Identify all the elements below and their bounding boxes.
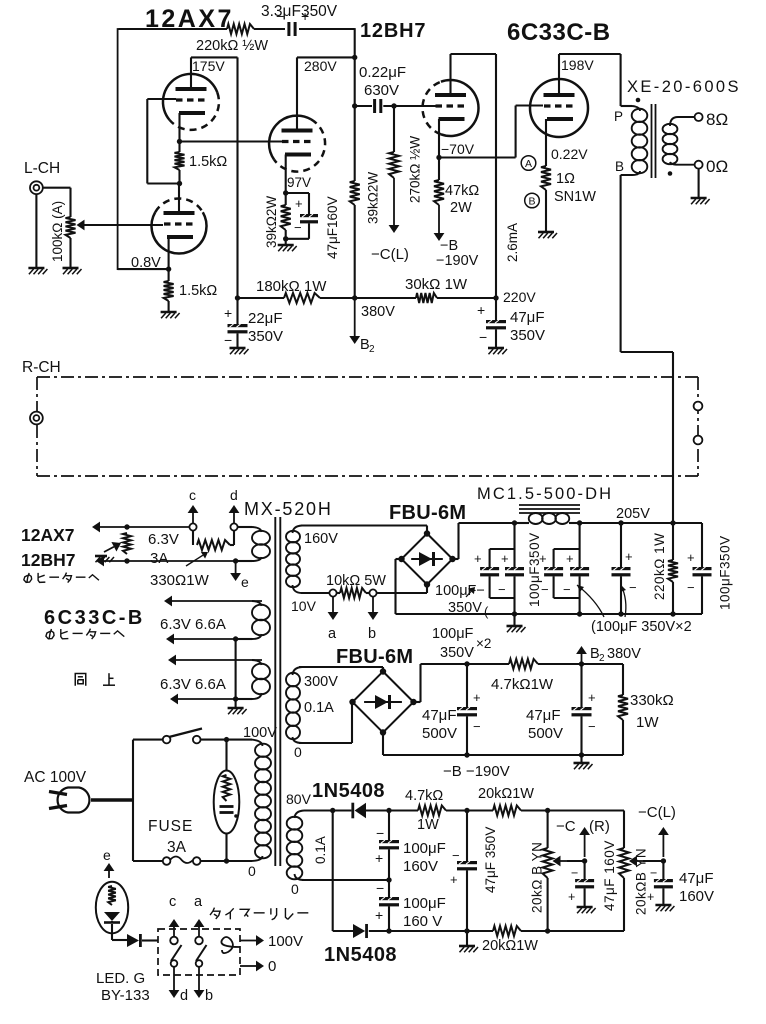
svg-text:−: − xyxy=(276,8,284,24)
svg-text:A: A xyxy=(525,158,532,170)
svg-text:b: b xyxy=(205,988,213,1004)
resistor 39k 2W rail xyxy=(350,181,360,205)
ground mid xyxy=(466,931,468,945)
capacitor 47uF 500V b2 xyxy=(580,664,582,707)
wire xyxy=(383,105,436,107)
svg-text:BY-133: BY-133 xyxy=(101,987,150,1004)
wire xyxy=(320,297,416,299)
svg-text:100μF350V: 100μF350V xyxy=(527,532,542,607)
wire B lead down xyxy=(620,175,622,352)
svg-text:10kΩ 5W: 10kΩ 5W xyxy=(326,573,386,589)
connector c xyxy=(189,523,196,530)
label timer relay xyxy=(210,908,214,915)
node xyxy=(235,295,240,300)
wire pot ground xyxy=(69,238,71,268)
wire xyxy=(299,28,355,30)
svg-text:47μF160V: 47μF160V xyxy=(325,196,340,259)
node xyxy=(577,611,582,616)
svg-text:d: d xyxy=(230,487,238,503)
wire lamp bottom xyxy=(225,834,227,862)
wire xyxy=(622,720,624,755)
svg-text:−C: −C xyxy=(556,818,576,835)
potentiometer 20kB YN 1 xyxy=(547,811,549,849)
wire tube5 plate lead xyxy=(558,54,560,95)
node xyxy=(464,928,469,933)
wire b to bridge xyxy=(377,592,427,594)
wire 80V top xyxy=(304,809,351,811)
svg-text:100V: 100V xyxy=(268,933,303,950)
wire primary bottom lead xyxy=(621,171,640,175)
relay lever c xyxy=(171,945,182,961)
svg-text:47μF: 47μF xyxy=(510,309,545,326)
wire tube1 grid lead xyxy=(147,98,176,100)
wire bridge1 top stub xyxy=(426,526,428,534)
resistor 220k 1/2W xyxy=(227,24,254,34)
tube V3 6C33C-B xyxy=(530,79,588,137)
resistor 4.7k 1W bias xyxy=(509,659,538,669)
svg-text:6C33C-B: 6C33C-B xyxy=(507,19,611,46)
svg-text:6.3V 6.6A: 6.3V 6.6A xyxy=(160,676,226,693)
svg-text:+: + xyxy=(477,302,485,318)
node xyxy=(512,611,517,616)
wire xyxy=(515,522,530,524)
node xyxy=(233,696,238,701)
svg-text:AC 100V: AC 100V xyxy=(24,769,87,786)
jack R-CH xyxy=(30,412,43,425)
wiper arrow 100k pot xyxy=(85,224,89,226)
ground heater xyxy=(228,707,244,710)
svg-text:4.7kΩ1W: 4.7kΩ1W xyxy=(491,676,554,693)
svg-text:+: + xyxy=(301,8,309,24)
capacitor 3.3uF 350V xyxy=(287,22,290,36)
resistor 220k 1W bleeder xyxy=(672,523,674,560)
terminal B xyxy=(525,193,540,208)
winding 6.3V 3A xyxy=(238,526,252,528)
resistor 20k 1W top xyxy=(493,806,521,816)
svg-text:12AX7: 12AX7 xyxy=(21,525,75,545)
relay contact a bottom circle xyxy=(196,960,203,967)
wire xyxy=(446,809,493,811)
svg-text:+: + xyxy=(687,550,695,565)
svg-text:350V: 350V xyxy=(448,600,482,616)
capacitor 47uF 160V r xyxy=(584,861,586,879)
phase dot secondary xyxy=(668,171,673,176)
svg-text:1W: 1W xyxy=(636,714,659,731)
capacitor 100uF 350V B2 xyxy=(570,567,589,570)
jack L-CH xyxy=(30,181,43,194)
timer relay dashed box xyxy=(158,929,240,975)
svg-text:a: a xyxy=(194,894,203,910)
wire top feedback left segment xyxy=(119,28,228,30)
winding 100V primary xyxy=(250,740,263,746)
relay lever a xyxy=(196,945,207,961)
wire bridge2 right up xyxy=(414,701,421,703)
wire xyxy=(236,333,238,347)
resistor 39k 2W cathode xyxy=(285,193,287,205)
label no-heater-he 2 xyxy=(49,629,51,639)
wire xyxy=(355,105,372,107)
svg-text:160V: 160V xyxy=(403,858,438,875)
pointer arrow capB2 xyxy=(577,585,604,617)
svg-text:300V: 300V xyxy=(304,674,338,690)
svg-text:−70V: −70V xyxy=(441,141,475,157)
node xyxy=(233,636,238,641)
svg-text:B: B xyxy=(615,159,624,174)
bridge rectifier FBU-6M 1 xyxy=(402,534,453,585)
resistor 180k 1W xyxy=(284,293,320,303)
svg-text:0: 0 xyxy=(291,881,299,897)
winding 300V xyxy=(293,667,303,675)
svg-text:100kΩ (A): 100kΩ (A) xyxy=(50,201,65,262)
capbankA bottom bracket xyxy=(489,576,491,598)
svg-text:350V: 350V xyxy=(510,327,545,344)
capacitor 0.22uF 630V xyxy=(373,99,376,113)
resistor 30k 1W xyxy=(416,293,437,303)
wire bridge1 bottom stub xyxy=(426,585,428,594)
ground bias xyxy=(580,755,582,762)
resistor 330ohm 1W xyxy=(192,531,194,545)
wire 80V bottom xyxy=(302,879,389,881)
svg-text:100μF−: 100μF− xyxy=(435,583,485,599)
svg-text:−: − xyxy=(563,582,571,597)
svg-text:47μF 160V: 47μF 160V xyxy=(602,840,617,911)
wire switch line xyxy=(133,739,163,741)
relay contact c bottom circle xyxy=(171,960,178,967)
label dou-ue xyxy=(75,674,86,686)
diode 1N5408 D1 xyxy=(355,803,366,819)
bus wire 205V xyxy=(580,522,702,524)
capbankB bottom bracket xyxy=(553,576,555,598)
terminal A xyxy=(521,156,536,171)
svg-text:+: + xyxy=(501,551,509,566)
svg-text:220kΩ 1W: 220kΩ 1W xyxy=(652,533,667,600)
wire xyxy=(521,930,624,932)
fuse arc xyxy=(170,857,193,864)
node tube2 cathode junction xyxy=(166,266,171,271)
capacitor 47uF 160V l xyxy=(662,861,664,879)
plug xyxy=(58,788,90,813)
svg-text:0: 0 xyxy=(248,863,256,879)
node xyxy=(464,661,469,666)
svg-text:12BH7: 12BH7 xyxy=(21,550,75,570)
arrow B2 380V xyxy=(581,654,583,664)
wire plate top jog xyxy=(191,56,238,58)
wire bias right edge xyxy=(622,664,624,695)
svg-text:1N5408: 1N5408 xyxy=(312,780,385,802)
wire tube2 plate lead xyxy=(178,184,180,214)
wire xyxy=(521,809,624,811)
node xyxy=(330,808,335,813)
LED resistor xyxy=(108,886,116,905)
svg-text:0.22V: 0.22V xyxy=(551,146,588,162)
connector circle upper xyxy=(694,402,703,411)
node xyxy=(386,808,391,813)
node xyxy=(124,558,129,563)
node 97V xyxy=(283,190,288,195)
wire+arrow heater2 bottom xyxy=(174,638,236,640)
wire wiper2 xyxy=(643,860,663,862)
relay coil xyxy=(221,937,240,953)
wire xyxy=(623,878,625,931)
svg-text:47μF 350V: 47μF 350V xyxy=(483,827,498,893)
svg-text:+: + xyxy=(450,872,458,887)
wire tube3 plate lead xyxy=(296,57,298,130)
svg-text:0.1A: 0.1A xyxy=(313,836,328,864)
neon resistor xyxy=(223,775,231,801)
svg-text:−: − xyxy=(452,848,460,863)
wire xyxy=(437,297,496,299)
capbankA top bracket xyxy=(513,523,515,567)
LED diode xyxy=(104,912,120,921)
arrow up d xyxy=(233,513,235,523)
svg-text:1Ω: 1Ω xyxy=(556,171,575,187)
resistor 1ohm SN1W xyxy=(541,166,551,190)
arrow up a xyxy=(198,927,200,937)
terminal 8ohm xyxy=(695,113,703,121)
svg-text:6C33C-B: 6C33C-B xyxy=(44,607,145,629)
ground 0ohm xyxy=(691,197,707,200)
relay contact a top circle xyxy=(195,937,203,945)
svg-text:×2: ×2 xyxy=(476,636,491,651)
arrow up c xyxy=(192,513,194,523)
arrow e xyxy=(235,561,237,573)
node xyxy=(352,103,357,108)
node xyxy=(545,808,550,813)
node xyxy=(352,55,357,60)
wire grid tube2 xyxy=(84,224,163,226)
svg-text:−C(L): −C(L) xyxy=(638,804,676,821)
arrow up c2 xyxy=(173,927,175,937)
svg-text:380V: 380V xyxy=(607,646,641,662)
svg-text:B: B xyxy=(528,196,535,208)
svg-text:198V: 198V xyxy=(561,57,594,73)
wire 280V jog xyxy=(297,56,355,58)
wire LED down xyxy=(111,921,113,922)
svg-text:b: b xyxy=(368,626,376,642)
node xyxy=(661,858,666,863)
svg-text:350V: 350V xyxy=(248,328,283,345)
svg-text:205V: 205V xyxy=(616,506,650,522)
wire right edge xyxy=(701,523,703,567)
svg-text:e: e xyxy=(103,847,111,863)
node xyxy=(464,808,469,813)
resistor 270k 1/2W xyxy=(393,106,395,152)
svg-text:−: − xyxy=(629,580,637,595)
node xyxy=(386,877,391,882)
svg-text:1.5kΩ: 1.5kΩ xyxy=(189,154,227,170)
pointer arrow 330 xyxy=(186,555,203,566)
wire tube4 plate lead xyxy=(449,54,451,95)
svg-text:P: P xyxy=(614,109,623,124)
svg-text:+: + xyxy=(375,850,383,866)
node xyxy=(352,295,357,300)
arrow -C(R) xyxy=(584,835,586,857)
svg-text:+: + xyxy=(224,305,232,321)
wire jack ground xyxy=(35,194,37,268)
wire tube3 cathode lead xyxy=(285,155,287,194)
svg-text:+: + xyxy=(474,551,482,566)
node corner left rail xyxy=(117,28,119,270)
svg-text:3.3μF350V: 3.3μF350V xyxy=(261,3,338,20)
arrow down b2 xyxy=(198,967,200,990)
primary coil xyxy=(632,109,648,122)
svg-text:47μF: 47μF xyxy=(526,707,561,724)
node xyxy=(391,103,396,108)
svg-text:−: − xyxy=(479,329,487,345)
svg-text:12BH7: 12BH7 xyxy=(360,20,426,42)
svg-text:39kΩ2W: 39kΩ2W xyxy=(264,196,279,248)
connector a tap xyxy=(329,589,336,596)
resistor 330k 1W xyxy=(618,695,628,720)
svg-text:e: e xyxy=(241,574,249,590)
wire doubler left leg xyxy=(332,811,334,932)
ground bus xyxy=(513,614,515,625)
wire xyxy=(369,930,389,932)
wire xyxy=(545,190,547,231)
svg-text:−: − xyxy=(650,866,657,880)
capacitor 100uF 350V B1 xyxy=(544,567,563,570)
arrow -C(L) xyxy=(662,835,664,857)
ground tube2 cathode xyxy=(161,311,177,314)
resistor 20k 1W bottom xyxy=(493,926,521,936)
svg-text:2W: 2W xyxy=(450,200,472,216)
wire xyxy=(366,809,418,811)
wire xyxy=(178,170,180,184)
wire right edge bias xyxy=(623,811,625,849)
wire wiper1 xyxy=(567,860,585,862)
capbankB top bracket xyxy=(579,523,581,567)
node xyxy=(577,520,582,525)
svg-text:0Ω: 0Ω xyxy=(706,157,728,176)
svg-text:2: 2 xyxy=(369,344,375,355)
neon lamp xyxy=(214,771,240,834)
svg-text:380V: 380V xyxy=(361,304,395,320)
capacitor 47uF160V bypass xyxy=(300,214,318,217)
svg-text:100μF: 100μF xyxy=(403,840,446,857)
svg-text:+: + xyxy=(625,549,633,564)
capacitor 100uF 160V d2 xyxy=(388,880,390,897)
svg-text:+: + xyxy=(647,890,654,904)
wire+arrow heater3 top xyxy=(176,659,262,661)
svg-text:20kΩ1W: 20kΩ1W xyxy=(478,786,534,802)
svg-text:+: + xyxy=(295,196,303,211)
wire 300V top xyxy=(299,666,383,668)
svg-text:−: − xyxy=(294,220,302,235)
svg-text:180kΩ 1W: 180kΩ 1W xyxy=(256,278,327,295)
resistor 4.7k 1W doubler xyxy=(418,806,446,816)
wire+arrow heater2 top xyxy=(172,600,262,602)
svg-text:+: + xyxy=(566,551,574,566)
ground 39k xyxy=(278,244,294,247)
bridge rectifier FBU-6M 2 xyxy=(353,672,414,733)
potentiometer 100k (A) xyxy=(66,217,76,238)
wire heater center xyxy=(235,639,237,707)
svg-text:+: + xyxy=(588,690,596,705)
svg-text:1W: 1W xyxy=(417,817,439,833)
node plate rail xyxy=(236,57,238,324)
winding 160V xyxy=(293,526,303,534)
potentiometer 20kB YN 2 xyxy=(619,848,629,878)
node xyxy=(124,524,129,529)
svg-text:100μF: 100μF xyxy=(403,895,446,912)
svg-text:270kΩ ½W: 270kΩ ½W xyxy=(408,136,423,203)
svg-text:220kΩ ½W: 220kΩ ½W xyxy=(196,38,268,54)
svg-text:c: c xyxy=(189,487,196,503)
wire xyxy=(168,269,170,281)
wire jack to pot xyxy=(43,187,71,189)
svg-text:20kΩ1W: 20kΩ1W xyxy=(482,938,538,954)
core line left xyxy=(274,517,276,866)
svg-text:330kΩ: 330kΩ xyxy=(630,692,674,709)
svg-text:−: − xyxy=(376,880,384,896)
node xyxy=(545,928,550,933)
ground 47uF xyxy=(488,347,504,350)
winding 80V xyxy=(295,811,305,819)
svg-text:0: 0 xyxy=(294,744,302,760)
svg-text:3A: 3A xyxy=(150,550,168,567)
dashed box R-CH left xyxy=(36,377,38,476)
svg-text:630V: 630V xyxy=(364,82,399,99)
wire 160V bottom xyxy=(301,592,329,594)
terminal 0ohm xyxy=(695,161,703,169)
resistor 1.5k lower xyxy=(164,281,174,301)
svg-text:FBU-6M: FBU-6M xyxy=(336,646,413,668)
svg-text:0.1A: 0.1A xyxy=(304,700,334,716)
wire secondary bottom lead xyxy=(670,162,695,165)
svg-text:+: + xyxy=(539,551,547,566)
wire bottom bias xyxy=(389,930,493,932)
svg-text:−: − xyxy=(473,719,481,734)
node xyxy=(579,752,584,757)
ground jack xyxy=(28,267,44,270)
fuse circles xyxy=(163,857,171,865)
svg-text:10V: 10V xyxy=(291,598,317,614)
phase dot primary xyxy=(636,98,641,103)
tube V1b 12AX7 xyxy=(151,212,206,253)
svg-text:47μF: 47μF xyxy=(679,870,714,887)
wire xyxy=(254,28,285,30)
svg-text:−190V: −190V xyxy=(436,253,479,269)
wire 160V top to bridge xyxy=(301,524,427,526)
svg-text:−: − xyxy=(541,582,549,597)
svg-text:MC1.5-500-DH: MC1.5-500-DH xyxy=(477,485,613,503)
choke core lines xyxy=(519,504,580,506)
secondary coil xyxy=(663,124,678,134)
wire bridge1 right up xyxy=(453,558,459,560)
dashed box R-CH top xyxy=(37,376,698,378)
label no-heater-he xyxy=(27,573,29,583)
svg-text:LED. G: LED. G xyxy=(96,970,145,987)
svg-text:8Ω: 8Ω xyxy=(706,110,728,129)
svg-text:SN1W: SN1W xyxy=(554,189,596,205)
dashed box R-CH right xyxy=(697,377,699,476)
svg-text:0: 0 xyxy=(268,958,276,975)
node xyxy=(618,611,623,616)
svg-text:160V: 160V xyxy=(679,888,714,905)
svg-text:30kΩ 1W: 30kΩ 1W xyxy=(405,276,468,293)
ground pot1 cap xyxy=(577,906,593,909)
svg-text:1.5kΩ: 1.5kΩ xyxy=(179,283,217,299)
wire tube5 cathode lead xyxy=(545,119,547,166)
svg-text:22μF: 22μF xyxy=(248,310,283,327)
tube V2b 12BH7 xyxy=(441,80,479,136)
ground 22uF xyxy=(230,347,246,350)
winding 6.3V 6.6A upper xyxy=(252,601,262,606)
svg-text:0.8V: 0.8V xyxy=(131,255,161,271)
svg-text:100μF: 100μF xyxy=(432,626,474,642)
svg-text:350V: 350V xyxy=(440,645,474,661)
wire bypass bottom xyxy=(308,223,310,238)
